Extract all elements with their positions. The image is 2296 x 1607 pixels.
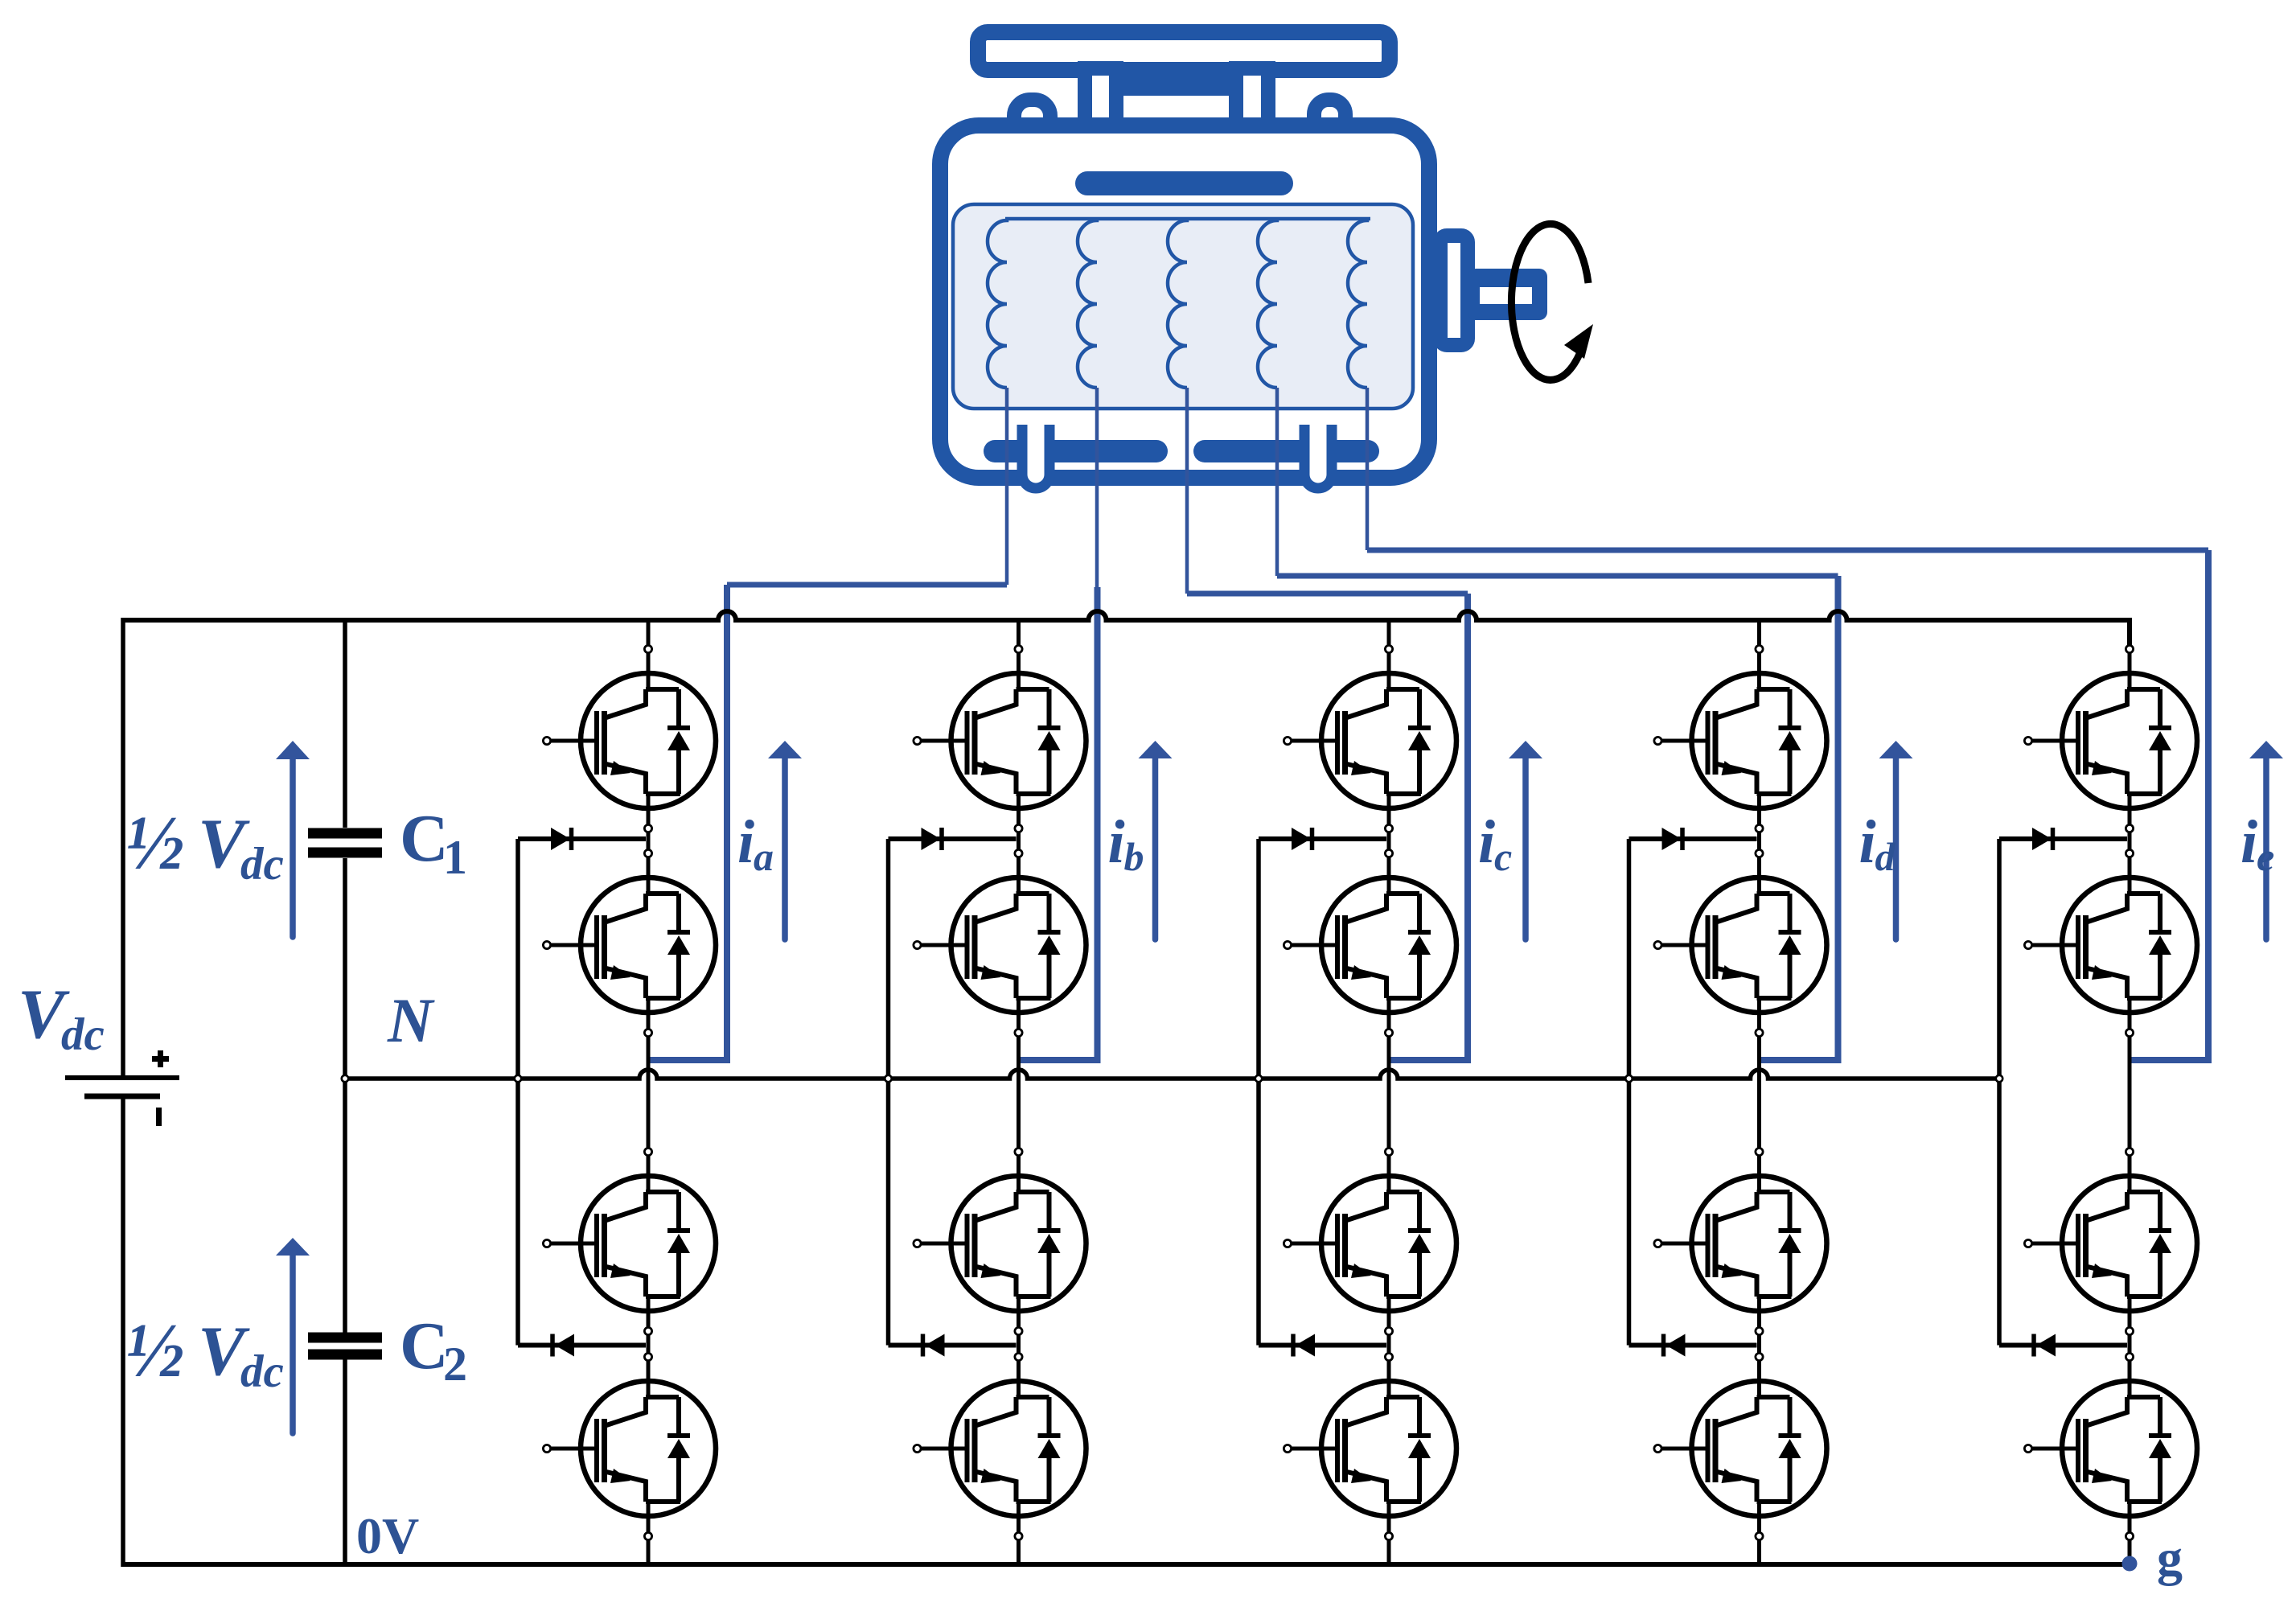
wire capacitor bus [343, 618, 347, 1567]
motor vent slot [1087, 171, 1281, 195]
clamp diode Da2 (lower) [518, 1334, 646, 1357]
label ic [1478, 808, 1512, 879]
IGBT Sa1 [543, 645, 716, 832]
svg-text:C: C [400, 801, 449, 876]
IGBT Sb3 [914, 1148, 1086, 1334]
IGBT Sb1 [914, 645, 1086, 832]
IGBT Sd4 [1654, 1353, 1827, 1539]
battery + label [152, 1050, 169, 1067]
svg-text:b: b [1124, 834, 1144, 879]
clamp diode Dd2 (lower) [1629, 1334, 1757, 1357]
leg d wire segments [1757, 620, 1761, 1564]
IGBT Se4 [2024, 1353, 2197, 1539]
svg-text:d: d [1875, 834, 1896, 879]
motor winding phase a [988, 219, 1007, 388]
svg-text:i: i [2241, 808, 2257, 876]
junction N / capacitor bus [342, 1075, 348, 1082]
IGBT Sc2 [1284, 849, 1456, 1036]
svg-text:½: ½ [126, 1307, 184, 1393]
wire phase e: motor winding to leg midpoint [1367, 388, 2208, 1060]
IGBT Se3 [2024, 1148, 2197, 1334]
arrow current ia [768, 741, 802, 939]
wire phase d: motor winding to leg midpoint [1277, 388, 1838, 1060]
svg-text:a: a [754, 834, 774, 879]
IGBT Sd1 [1654, 645, 1827, 832]
label Vdc [18, 976, 105, 1060]
svg-text:c: c [1494, 834, 1512, 879]
clamp bus leg e [1997, 839, 2002, 1346]
junction N bus leg e [1996, 1075, 2002, 1082]
wire phase a: motor winding to leg midpoint [651, 388, 1008, 1060]
junction N bus leg a [515, 1075, 521, 1082]
motor winding phase c [1168, 219, 1187, 388]
svg-text:i: i [1478, 808, 1495, 876]
arrow current ib [1139, 741, 1173, 939]
IGBT Sd2 [1654, 849, 1827, 1036]
battery - label [156, 1108, 162, 1126]
leg c wire segments [1387, 620, 1391, 1564]
svg-text:C: C [400, 1309, 449, 1383]
IGBT Sc3 [1284, 1148, 1456, 1334]
svg-text:1: 1 [443, 831, 467, 884]
IGBT Sa4 [543, 1353, 716, 1539]
motor shaft hub [1440, 236, 1468, 345]
motor winding phase e [1348, 219, 1367, 388]
capacitor C1 [308, 833, 382, 853]
junction N bus leg b [885, 1075, 891, 1082]
IGBT Sa3 [543, 1148, 716, 1334]
motor skid bars [995, 440, 1368, 462]
motor winding common bus [1005, 217, 1370, 221]
wire DC+ top rail [123, 611, 2130, 647]
wire phase c: motor winding to leg midpoint [1187, 388, 1468, 1060]
IGBT Sc4 [1284, 1353, 1456, 1539]
arrow half Vdc across C1 [276, 741, 310, 937]
motor lifting ears [1014, 100, 1345, 161]
svg-text:N: N [387, 985, 435, 1055]
IGBT Sc1 [1284, 645, 1456, 832]
wire phase b: motor winding to leg midpoint [1021, 388, 1098, 1060]
svg-text:e: e [2257, 834, 2274, 879]
clamp bus leg a [515, 839, 520, 1346]
svg-text:2: 2 [443, 1338, 467, 1391]
wire 0V bottom rail [123, 1562, 2130, 1567]
label ib [1108, 808, 1144, 879]
svg-text:dc: dc [240, 1346, 284, 1397]
clamp diode De1 (upper) [1999, 828, 2127, 850]
motor feet [1022, 425, 1332, 488]
label half Vdc (lower) [126, 1307, 284, 1397]
svg-text:½: ½ [126, 799, 184, 886]
motor winding phase d [1258, 219, 1277, 388]
svg-text:g: g [2157, 1529, 2183, 1586]
motor stator box [953, 204, 1413, 409]
clamp diode Dc2 (lower) [1259, 1334, 1386, 1357]
clamp diode Dc1 (upper) [1259, 828, 1386, 850]
IGBT Se2 [2024, 849, 2197, 1036]
clamp diode Dd1 (upper) [1629, 828, 1757, 850]
svg-text:i: i [1859, 808, 1876, 876]
clamp diode Db1 (upper) [889, 828, 1017, 850]
motor mounting posts [1085, 68, 1268, 137]
motor plate lower bar [1078, 76, 1275, 96]
arrow current id [1879, 741, 1913, 939]
arrow current ie [2249, 741, 2283, 939]
capacitor C2 [308, 1338, 382, 1354]
label C2 [400, 1309, 467, 1391]
battery Vdc [65, 1078, 179, 1096]
IGBT Sd3 [1654, 1148, 1827, 1334]
motor body frame [940, 125, 1429, 478]
wire neutral N rail [345, 1070, 1999, 1079]
motor M: 5-phase machine, mounting plate [978, 32, 1390, 70]
svg-text:i: i [1108, 808, 1125, 876]
motor winding phase b [1078, 219, 1097, 388]
label ie [2241, 808, 2274, 879]
node g dot [2122, 1556, 2138, 1572]
label half Vdc (upper) [126, 799, 284, 890]
junction N bus leg d [1625, 1075, 1632, 1082]
IGBT Sb4 [914, 1353, 1086, 1539]
clamp diode De2 (lower) [1999, 1334, 2127, 1357]
clamp bus leg c [1256, 839, 1261, 1346]
motor shaft [1468, 269, 1547, 320]
arrow half Vdc across C2 [276, 1238, 310, 1433]
clamp diode Db2 (lower) [889, 1334, 1017, 1357]
rotation arrow [1511, 224, 1593, 380]
clamp bus leg b [886, 839, 891, 1346]
svg-text:0V: 0V [356, 1507, 419, 1564]
arrow current ic [1509, 741, 1542, 939]
clamp bus leg d [1627, 839, 1632, 1346]
clamp diode Da1 (upper) [518, 828, 646, 850]
IGBT Se1 [2024, 645, 2197, 832]
leg a wire segments [647, 620, 651, 1564]
label id [1859, 808, 1896, 879]
IGBT Sa2 [543, 849, 716, 1036]
svg-text:dc: dc [240, 839, 284, 890]
svg-text:i: i [737, 808, 754, 876]
leg b wire segments [1017, 620, 1021, 1564]
leg e wire segments [2128, 827, 2132, 1564]
wire DC- left rail [121, 618, 125, 1567]
IGBT Sb2 [914, 849, 1086, 1036]
label C1 [400, 801, 467, 884]
junction N bus leg c [1255, 1075, 1262, 1082]
label ia [737, 808, 774, 879]
svg-text:dc: dc [61, 1009, 105, 1060]
